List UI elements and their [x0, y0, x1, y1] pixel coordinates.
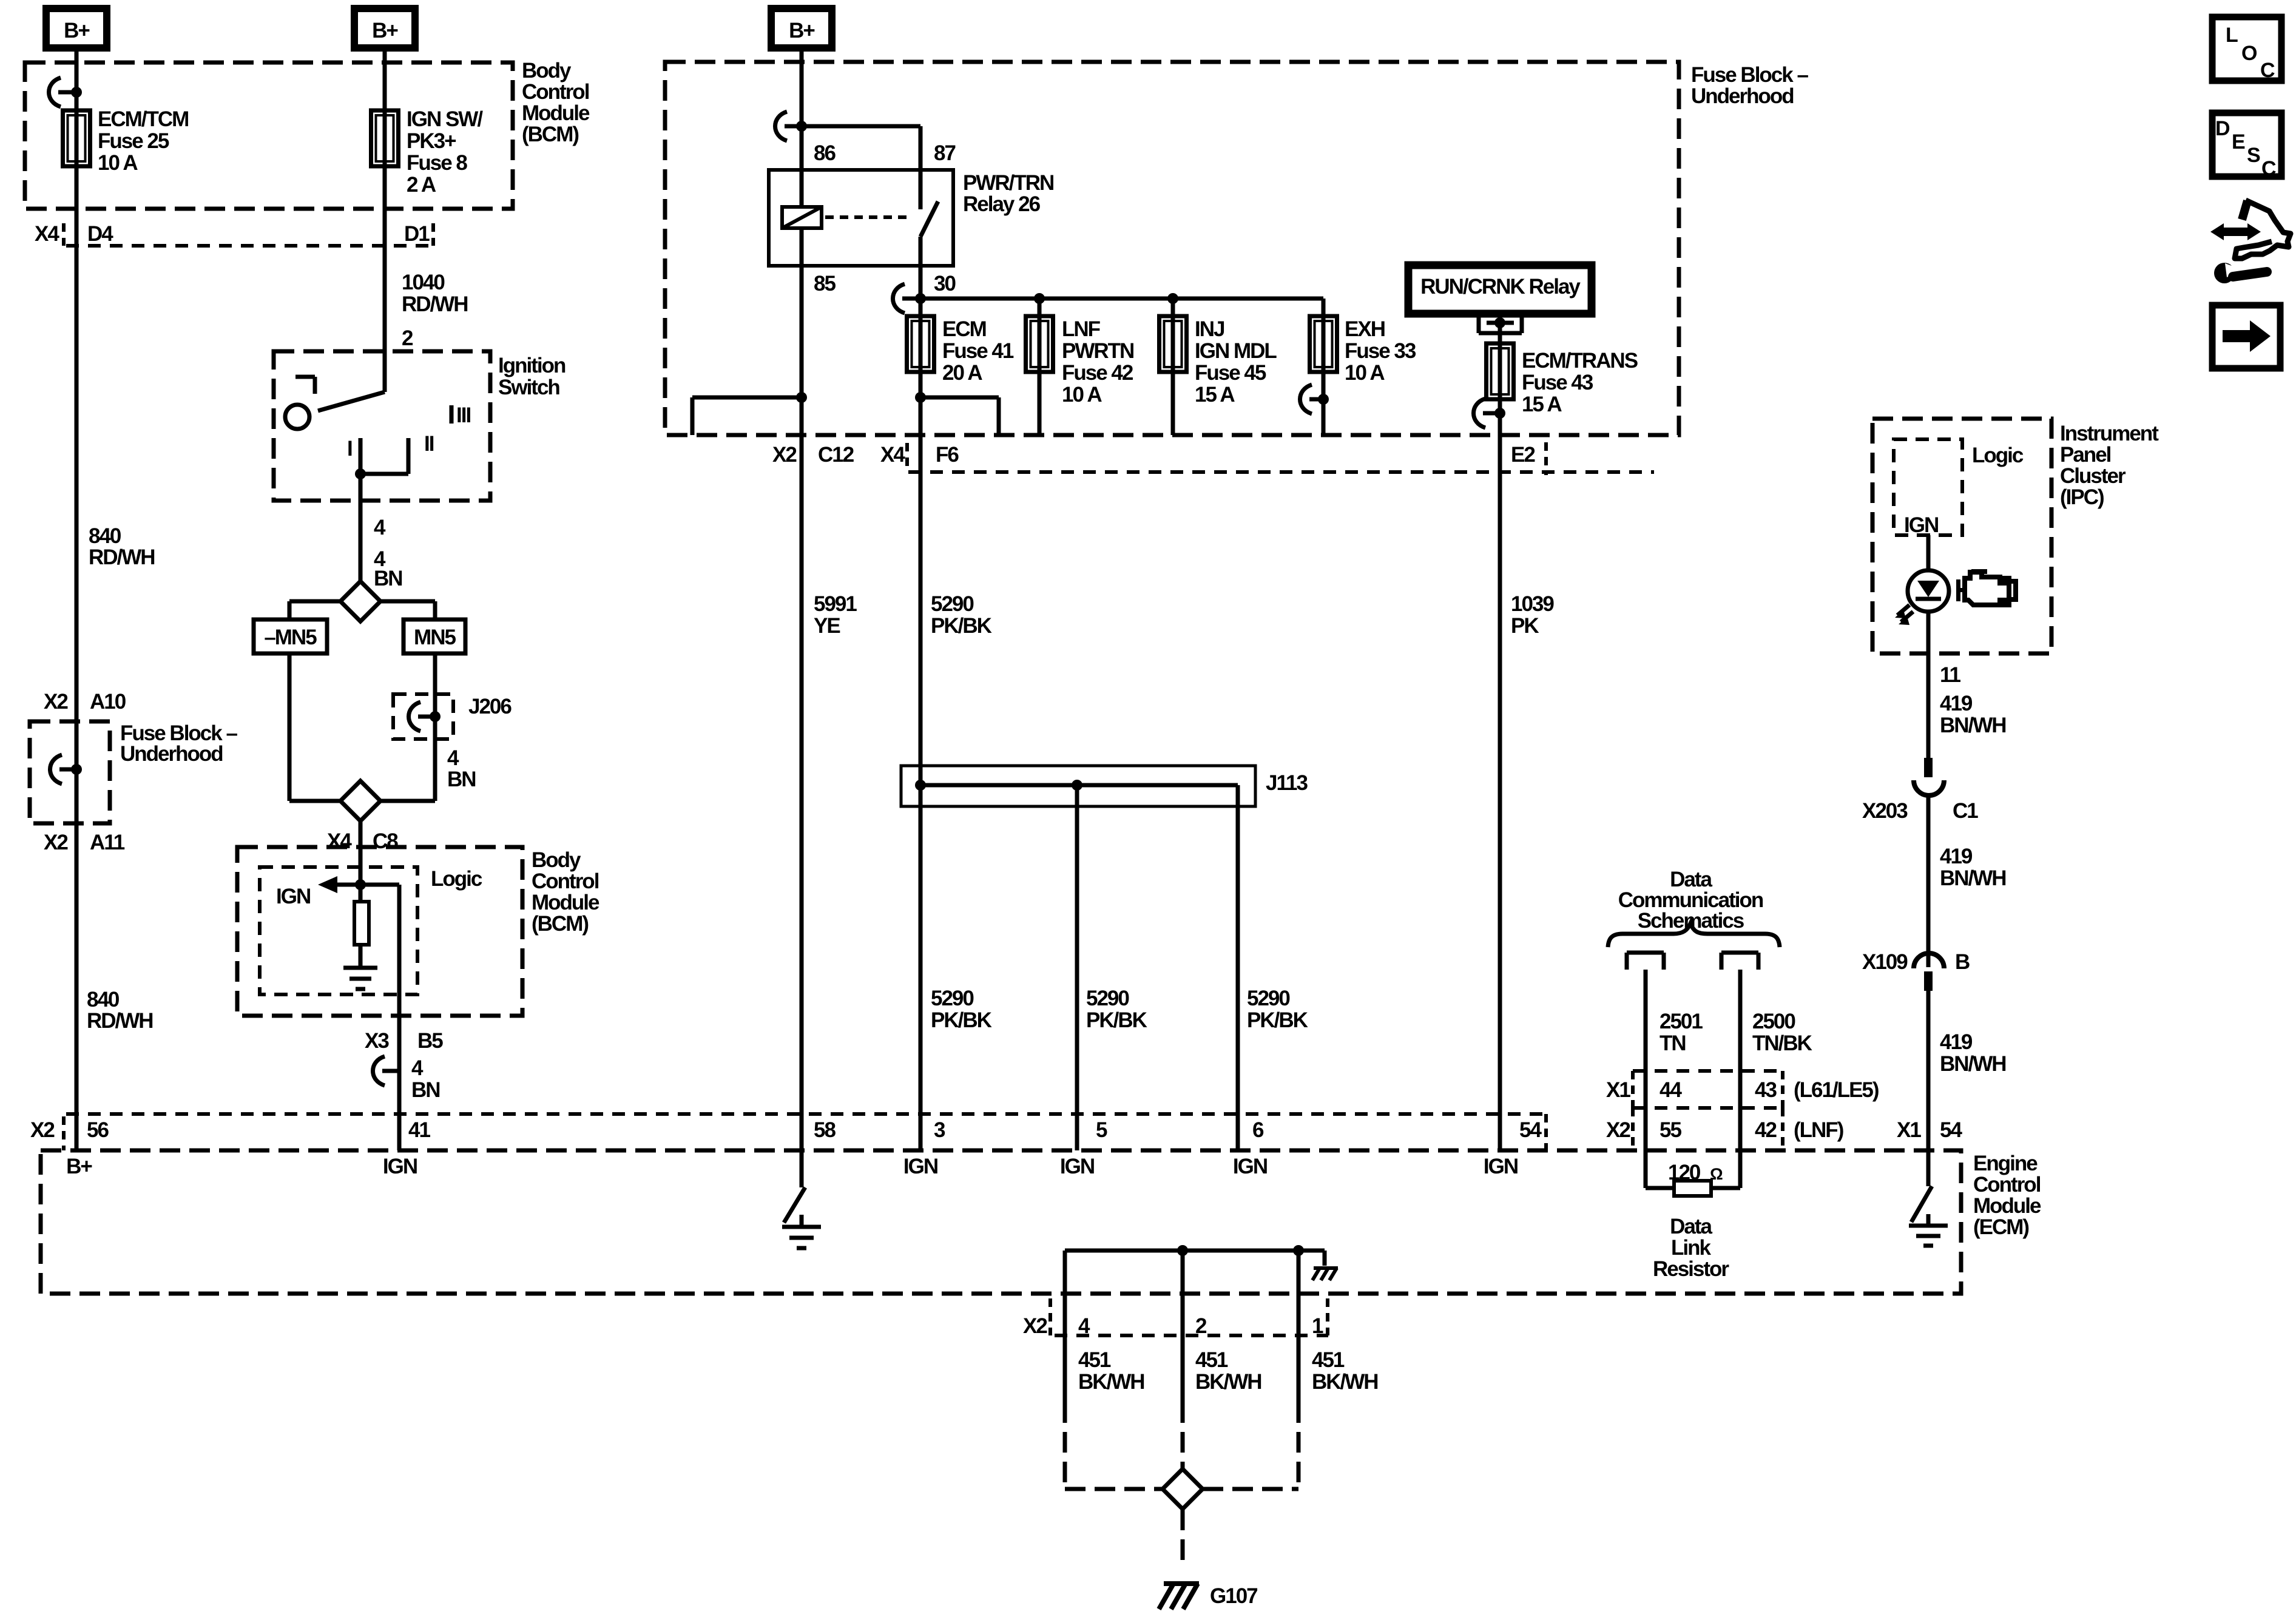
svg-text:X2: X2: [772, 443, 797, 467]
svg-text:X4: X4: [327, 829, 352, 853]
svg-text:J113: J113: [1266, 771, 1308, 795]
svg-text:BN/WH: BN/WH: [1940, 714, 2006, 737]
svg-text:B+: B+: [789, 19, 815, 42]
svg-text:IGN: IGN: [383, 1155, 417, 1178]
svg-text:BN/WH: BN/WH: [1940, 1052, 2006, 1076]
svg-text:Fuse 41: Fuse 41: [942, 339, 1014, 363]
svg-text:2500: 2500: [1752, 1010, 1795, 1033]
svg-text:451: 451: [1078, 1348, 1111, 1372]
svg-text:419: 419: [1940, 845, 1973, 868]
svg-text:RUN/CRNK Relay: RUN/CRNK Relay: [1420, 275, 1581, 299]
svg-text:2: 2: [402, 326, 413, 350]
svg-text:120: 120: [1668, 1161, 1701, 1184]
svg-text:X2: X2: [1023, 1314, 1047, 1338]
svg-text:Fuse 25: Fuse 25: [98, 129, 169, 153]
svg-text:–MN5: –MN5: [264, 626, 317, 649]
svg-text:II: II: [424, 432, 434, 456]
svg-text:Schematics: Schematics: [1638, 909, 1744, 933]
svg-text:G107: G107: [1210, 1584, 1257, 1608]
svg-text:X203: X203: [1862, 799, 1908, 823]
svg-text:BN/WH: BN/WH: [1940, 866, 2006, 890]
svg-text:Ignition: Ignition: [498, 354, 566, 377]
svg-text:BK/WH: BK/WH: [1195, 1370, 1261, 1394]
svg-text:10 A: 10 A: [1345, 361, 1385, 385]
svg-text:Logic: Logic: [1972, 444, 2024, 467]
svg-text:15 A: 15 A: [1522, 393, 1562, 416]
svg-text:PK/BK: PK/BK: [931, 614, 992, 638]
svg-text:A11: A11: [90, 831, 125, 854]
svg-text:Module: Module: [1973, 1194, 2041, 1218]
svg-text:6: 6: [1252, 1118, 1264, 1142]
svg-text:X4: X4: [35, 222, 59, 246]
svg-text:451: 451: [1312, 1348, 1345, 1372]
svg-text:IGN: IGN: [1060, 1155, 1094, 1178]
svg-text:X4: X4: [880, 443, 905, 467]
svg-text:F6: F6: [936, 443, 959, 467]
svg-text:ECM/TRANS: ECM/TRANS: [1522, 349, 1638, 373]
svg-text:Fuse 45: Fuse 45: [1195, 361, 1266, 385]
svg-text:30: 30: [934, 272, 956, 295]
svg-text:Resistor: Resistor: [1653, 1257, 1729, 1281]
svg-text:B: B: [1955, 950, 1970, 974]
svg-text:419: 419: [1940, 692, 1973, 715]
svg-text:(LNF): (LNF): [1794, 1118, 1843, 1142]
svg-text:BN: BN: [374, 567, 402, 590]
svg-text:419: 419: [1940, 1030, 1973, 1054]
svg-text:PWR/TRN: PWR/TRN: [963, 171, 1053, 195]
svg-text:451: 451: [1195, 1348, 1228, 1372]
svg-text:58: 58: [814, 1118, 836, 1142]
svg-text:Instrument: Instrument: [2060, 422, 2159, 445]
svg-text:1040: 1040: [402, 271, 445, 294]
svg-text:TN/BK: TN/BK: [1752, 1031, 1812, 1055]
svg-text:1039: 1039: [1511, 592, 1554, 616]
svg-text:4: 4: [411, 1056, 424, 1080]
svg-text:E: E: [2232, 130, 2245, 154]
svg-text:(ECM): (ECM): [1973, 1215, 2028, 1239]
svg-text:X1: X1: [1897, 1118, 1921, 1142]
svg-text:III: III: [456, 403, 470, 427]
svg-text:3: 3: [934, 1118, 945, 1142]
svg-text:IGN: IGN: [1484, 1155, 1518, 1178]
svg-text:5290: 5290: [931, 592, 974, 616]
svg-text:(BCM): (BCM): [522, 123, 578, 146]
svg-text:2: 2: [1195, 1314, 1207, 1338]
svg-text:INJ: INJ: [1195, 317, 1224, 341]
svg-text:Logic: Logic: [431, 867, 482, 891]
svg-text:Fuse Block –: Fuse Block –: [1691, 63, 1808, 87]
svg-text:1: 1: [1312, 1314, 1323, 1338]
svg-text:IGN: IGN: [276, 885, 310, 908]
svg-text:PK/BK: PK/BK: [1247, 1008, 1308, 1032]
svg-text:Control: Control: [522, 80, 589, 104]
svg-text:Underhood: Underhood: [1691, 84, 1794, 108]
svg-text:4: 4: [447, 746, 459, 770]
svg-text:Fuse 43: Fuse 43: [1522, 371, 1593, 394]
svg-text:(BCM): (BCM): [532, 912, 588, 936]
svg-text:C12: C12: [818, 443, 854, 467]
svg-text:X2: X2: [30, 1118, 55, 1142]
svg-text:TN: TN: [1660, 1031, 1686, 1055]
svg-text:BK/WH: BK/WH: [1078, 1370, 1144, 1394]
svg-text:Link: Link: [1671, 1236, 1711, 1260]
svg-text:RD/WH: RD/WH: [402, 292, 468, 316]
svg-text:5: 5: [1096, 1118, 1107, 1142]
svg-text:RD/WH: RD/WH: [87, 1009, 153, 1033]
svg-text:Control: Control: [1973, 1173, 2041, 1197]
svg-text:2 A: 2 A: [407, 173, 436, 197]
svg-text:EXH: EXH: [1345, 317, 1385, 341]
svg-text:Ω: Ω: [1710, 1165, 1723, 1183]
svg-text:B+: B+: [64, 19, 90, 42]
svg-text:X3: X3: [365, 1029, 389, 1053]
svg-text:2501: 2501: [1660, 1010, 1703, 1033]
svg-text:Fuse 33: Fuse 33: [1345, 339, 1416, 363]
svg-text:J206: J206: [468, 695, 512, 718]
svg-text:X2: X2: [44, 831, 68, 854]
svg-text:5991: 5991: [814, 592, 857, 616]
svg-text:X1: X1: [1606, 1078, 1630, 1102]
svg-text:42: 42: [1755, 1118, 1777, 1142]
svg-text:PK3+: PK3+: [407, 129, 456, 153]
svg-text:S: S: [2247, 144, 2260, 167]
svg-text:I: I: [347, 437, 352, 461]
svg-text:Data: Data: [1670, 1215, 1712, 1238]
svg-text:BN: BN: [447, 768, 476, 791]
svg-text:10 A: 10 A: [1062, 383, 1102, 407]
svg-text:Cluster: Cluster: [2060, 464, 2126, 488]
svg-text:5290: 5290: [1247, 987, 1290, 1010]
svg-text:PK/BK: PK/BK: [1086, 1008, 1147, 1032]
svg-text:X2: X2: [44, 690, 68, 714]
svg-text:ECM: ECM: [942, 317, 986, 341]
svg-text:10 A: 10 A: [98, 151, 138, 175]
svg-text:C8: C8: [373, 829, 398, 853]
svg-text:D: D: [2215, 117, 2230, 140]
svg-text:X109: X109: [1862, 950, 1908, 974]
svg-text:E2: E2: [1511, 443, 1535, 467]
svg-text:PK/BK: PK/BK: [931, 1008, 992, 1032]
svg-text:X2: X2: [1606, 1118, 1630, 1142]
svg-text:840: 840: [89, 524, 121, 548]
svg-text:Fuse 42: Fuse 42: [1062, 361, 1133, 385]
svg-text:55: 55: [1660, 1118, 1681, 1142]
svg-text:Body: Body: [522, 59, 572, 83]
svg-text:4: 4: [1078, 1314, 1090, 1338]
svg-text:D4: D4: [87, 222, 113, 246]
svg-text:5290: 5290: [931, 987, 974, 1010]
svg-text:85: 85: [814, 272, 836, 295]
svg-text:C: C: [2260, 59, 2275, 82]
svg-text:PWRTN: PWRTN: [1062, 339, 1133, 363]
svg-text:54: 54: [1940, 1118, 1962, 1142]
svg-text:20 A: 20 A: [942, 361, 982, 385]
svg-text:RD/WH: RD/WH: [89, 545, 155, 569]
svg-text:840: 840: [87, 988, 120, 1011]
svg-text:(L61/LE5): (L61/LE5): [1794, 1078, 1879, 1102]
svg-text:B+: B+: [372, 19, 398, 42]
svg-text:Fuse 8: Fuse 8: [407, 151, 467, 175]
svg-text:L: L: [2226, 24, 2238, 47]
svg-text:86: 86: [814, 141, 836, 165]
svg-text:LNF: LNF: [1062, 317, 1101, 341]
svg-text:BK/WH: BK/WH: [1312, 1370, 1378, 1394]
svg-text:MN5: MN5: [414, 626, 456, 649]
svg-text:Body: Body: [532, 848, 581, 872]
svg-text:11: 11: [1940, 663, 1961, 687]
svg-text:Underhood: Underhood: [120, 742, 223, 766]
svg-text:Module: Module: [532, 891, 599, 914]
svg-text:O: O: [2241, 42, 2257, 65]
svg-text:BN: BN: [411, 1078, 440, 1102]
svg-text:Control: Control: [532, 869, 599, 893]
svg-text:C1: C1: [1953, 799, 1978, 823]
svg-text:56: 56: [87, 1118, 109, 1142]
svg-text:IGN: IGN: [1904, 513, 1938, 537]
svg-text:IGN MDL: IGN MDL: [1195, 339, 1277, 363]
svg-text:YE: YE: [814, 614, 840, 638]
svg-text:IGN: IGN: [903, 1155, 937, 1178]
svg-text:4: 4: [374, 516, 386, 539]
svg-text:41: 41: [408, 1118, 430, 1142]
svg-text:Relay 26: Relay 26: [963, 192, 1041, 216]
svg-text:D1: D1: [404, 222, 430, 246]
svg-text:43: 43: [1755, 1078, 1777, 1102]
svg-text:15 A: 15 A: [1195, 383, 1235, 407]
svg-text:B+: B+: [66, 1155, 92, 1178]
svg-text:PK: PK: [1511, 614, 1539, 638]
svg-text:Engine: Engine: [1973, 1152, 2038, 1175]
svg-text:54: 54: [1519, 1118, 1542, 1142]
svg-text:IGN: IGN: [1233, 1155, 1267, 1178]
svg-text:B5: B5: [417, 1029, 443, 1053]
svg-text:A10: A10: [90, 690, 126, 714]
svg-text:Module: Module: [522, 101, 590, 125]
svg-text:Panel: Panel: [2060, 443, 2111, 467]
svg-text:ECM/TCM: ECM/TCM: [98, 107, 188, 131]
svg-text:44: 44: [1660, 1078, 1682, 1102]
svg-text:IGN SW/: IGN SW/: [407, 107, 483, 131]
svg-text:Switch: Switch: [498, 376, 559, 399]
svg-text:C: C: [2261, 157, 2276, 180]
svg-text:5290: 5290: [1086, 987, 1129, 1010]
svg-text:87: 87: [934, 141, 955, 165]
svg-text:(IPC): (IPC): [2060, 485, 2104, 509]
